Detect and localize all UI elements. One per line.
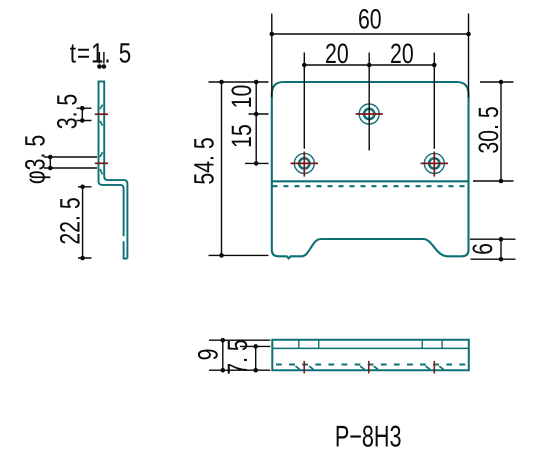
side view top cap: [98, 81, 106, 83]
dim 20-20 lines: [304, 53, 434, 151]
dim phi3.5 lines: [44, 157, 97, 168]
svg-text:P−8H3: P−8H3: [335, 420, 402, 450]
dim 3.5 lines: [77, 108, 92, 120]
svg-text:30. 5: 30. 5: [473, 106, 504, 153]
dim t=1.5 leader lines: [99, 52, 104, 64]
hole left crosshair: [291, 152, 318, 177]
dim 30.5 dots: [499, 80, 504, 85]
dim 10-15 dots: [254, 80, 259, 85]
dim t=1.5 arrow dots: [97, 64, 102, 69]
dim 10-15 lines: [245, 82, 269, 163]
side view outer contour: [99, 81, 128, 259]
hole top outer circle: [359, 104, 379, 124]
hole right outer circle: [424, 153, 444, 173]
dim 3.5 dots: [80, 106, 85, 111]
hole left inner circle: [299, 158, 309, 168]
hole right crosshair: [421, 152, 448, 177]
svg-text:3. 5: 3. 5: [52, 94, 83, 129]
dim phi3.5 dots: [48, 155, 53, 160]
bottom view dashed hidden line: [276, 364, 466, 366]
side view inner contour: [104, 81, 127, 259]
hole right inner circle: [429, 158, 439, 168]
dim 30.5 lines: [473, 82, 514, 181]
dim 54.5 lines: [209, 82, 269, 255]
svg-text:22. 5: 22. 5: [55, 197, 86, 244]
svg-text:9: 9: [193, 349, 224, 361]
dim 7.5 dots: [253, 344, 258, 349]
dim 20-20 dots: [302, 63, 307, 68]
dim 7.5 lines: [240, 346, 270, 370]
dim 60 dots: [270, 32, 275, 37]
dim 22.5 dots: [80, 185, 85, 190]
side view hole2 arcs: [100, 152, 103, 174]
dim 54.5 dots: [219, 80, 224, 85]
bottom view hole arcs: [296, 366, 444, 369]
svg-text:7. 5: 7. 5: [222, 339, 253, 374]
dim 6 lines: [470, 239, 516, 259]
svg-text:20: 20: [390, 38, 414, 69]
hole top inner circle: [364, 109, 374, 119]
dim 6 dots: [499, 237, 504, 242]
svg-text:54. 5: 54. 5: [189, 137, 220, 184]
svg-text:6: 6: [467, 243, 498, 255]
side view centerline hole2: [95, 162, 108, 164]
svg-text:t=1. 5: t=1. 5: [70, 38, 132, 69]
bottom view inner line: [272, 347, 469, 349]
side view hole1 arcs: [100, 105, 103, 126]
bottom view hole ticks: [304, 361, 434, 374]
svg-text:60: 60: [358, 4, 382, 35]
front view bend line solid: [272, 180, 469, 182]
hole left outer circle: [294, 153, 314, 173]
hole top centerline: [356, 113, 383, 115]
dim 9 dots: [221, 338, 226, 343]
svg-text:15: 15: [226, 124, 257, 148]
dim 22.5 lines: [78, 187, 92, 258]
front view hidden dashed line: [273, 185, 467, 187]
svg-text:φ3. 5: φ3. 5: [20, 135, 51, 184]
dim 60 lines: [272, 14, 469, 98]
bottom view rectangle: [272, 340, 469, 370]
front view outline: [272, 82, 469, 258]
bottom view bend dividers: [299, 340, 442, 349]
side view centerline hole1: [95, 113, 108, 115]
svg-text:10: 10: [226, 85, 257, 109]
dim 9 lines: [209, 340, 270, 370]
svg-text:20: 20: [325, 38, 349, 69]
